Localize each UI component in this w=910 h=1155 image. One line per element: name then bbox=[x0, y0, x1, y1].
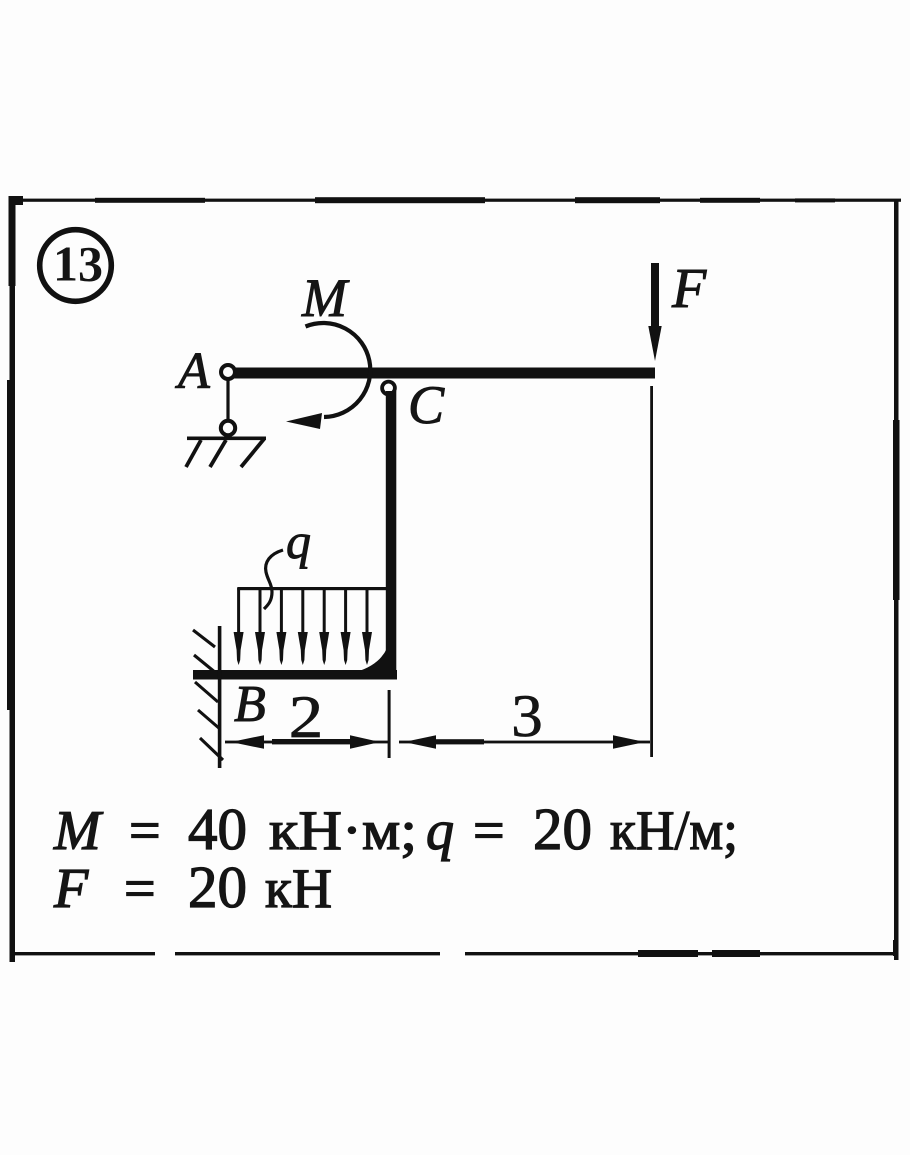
ground line at A bbox=[187, 437, 266, 441]
dimension line 3 (right span) bbox=[399, 735, 650, 749]
dimension line 2 (left span) bbox=[225, 735, 388, 749]
svg-text:A: A bbox=[175, 343, 210, 400]
svg-text:M: M bbox=[301, 268, 350, 328]
pin support link bbox=[226, 378, 229, 422]
wall hatching at B bbox=[193, 630, 223, 760]
svg-text:C: C bbox=[408, 375, 445, 435]
pin support lower hinge circle bbox=[221, 421, 235, 435]
vertical member C-corner bbox=[386, 391, 397, 679]
ground hatching at A bbox=[186, 439, 264, 467]
moment arrowhead bbox=[286, 413, 322, 429]
pin support at A: upper hinge circle bbox=[221, 365, 235, 379]
border right bbox=[893, 200, 900, 960]
bottom beam B-corner bbox=[193, 670, 397, 680]
corner fillet bbox=[356, 638, 390, 672]
distributed load arrows bbox=[234, 588, 372, 665]
dimension tick at corner bbox=[388, 690, 391, 758]
q leader squiggle bbox=[264, 550, 283, 609]
beam A-C-end (horizontal member) bbox=[233, 368, 655, 379]
border left bbox=[7, 196, 16, 962]
border top dashed line bbox=[9, 196, 901, 205]
svg-text:M=40кН·м;q=20кН/м;: M=40кН·м;q=20кН/м; bbox=[53, 796, 738, 862]
moment arc bbox=[306, 323, 371, 417]
svg-text:q: q bbox=[286, 513, 311, 569]
wall line at B bbox=[218, 626, 222, 768]
svg-text:3: 3 bbox=[511, 683, 542, 749]
hinge circle at C bbox=[382, 382, 395, 395]
border bottom dashed line bbox=[10, 935, 898, 957]
extension line right bbox=[650, 386, 653, 757]
force F arrow bbox=[648, 263, 661, 361]
svg-text:13: 13 bbox=[53, 236, 103, 292]
svg-text:B: B bbox=[234, 676, 266, 733]
distributed load top line bbox=[237, 587, 386, 590]
svg-text:2: 2 bbox=[289, 683, 323, 750]
svg-text:F: F bbox=[671, 258, 707, 320]
variant number circle 13 bbox=[40, 230, 112, 302]
